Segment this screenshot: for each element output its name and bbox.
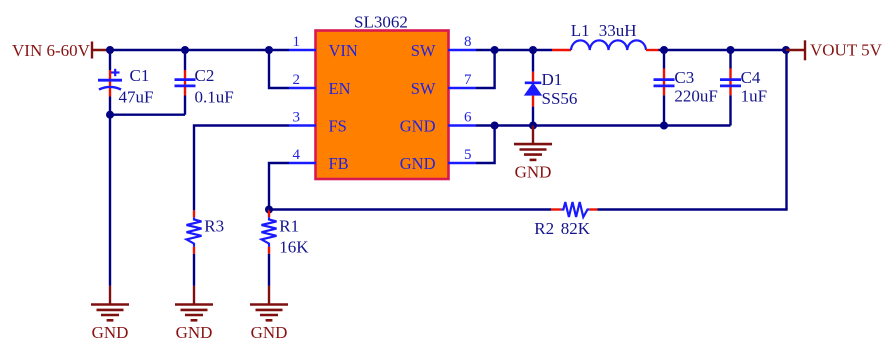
capacitor C4: [720, 50, 741, 126]
svg-text:VIN 6-60V: VIN 6-60V: [12, 41, 91, 60]
port VIN 6-60V: [91, 42, 93, 59]
pin 4 FB: [289, 162, 316, 165]
wire L1 to VOUT: [659, 49, 787, 51]
svg-text:GND: GND: [92, 323, 129, 342]
wire FB net: [269, 163, 289, 210]
wire C1-C2 bottom rail: [110, 113, 185, 115]
pin 8 SW: [448, 49, 476, 52]
wire SW node pin8 to L1: [476, 49, 552, 51]
svg-text:FB: FB: [329, 154, 349, 173]
wire FB rail to R2: [269, 208, 551, 210]
wire C1 down to GND: [109, 115, 111, 286]
node C2 top junction: [181, 46, 189, 54]
svg-text:C1: C1: [130, 66, 150, 85]
svg-text:SW: SW: [411, 41, 436, 60]
svg-text:GND: GND: [515, 162, 552, 181]
pin 7 SW: [448, 87, 476, 90]
svg-text:R1: R1: [279, 217, 299, 236]
wire pin7 up to pin8: [476, 50, 495, 88]
svg-text:C4: C4: [741, 68, 761, 87]
node D1 top junction: [529, 46, 537, 54]
wire VIN top rail: [110, 49, 289, 51]
node pin6 junction: [491, 122, 499, 130]
svg-text:5: 5: [464, 147, 472, 163]
svg-text:4: 4: [293, 147, 301, 163]
svg-text:C3: C3: [674, 68, 694, 87]
wire R3 to GND: [193, 254, 195, 286]
svg-text:8: 8: [464, 34, 472, 50]
op-amp U1 SL3062 body: [316, 31, 449, 180]
node C1 top junction: [106, 46, 114, 54]
svg-text:16K: 16K: [279, 237, 309, 256]
ground GND under R1: [250, 286, 288, 342]
svg-text:SW: SW: [411, 79, 436, 98]
svg-text:GND: GND: [400, 117, 436, 136]
node D1 bottom junction: [529, 122, 537, 130]
svg-text:82K: 82K: [561, 219, 591, 238]
svg-text:1: 1: [293, 34, 301, 50]
wire GND rail: [476, 124, 731, 126]
svg-text:3: 3: [293, 110, 301, 126]
svg-text:D1: D1: [542, 70, 563, 89]
svg-text:GND: GND: [176, 323, 213, 342]
svg-text:L1: L1: [571, 21, 590, 40]
ground GND under C1: [91, 286, 129, 342]
svg-text:SL3062: SL3062: [354, 12, 408, 31]
node C3 bottom junction: [660, 122, 668, 130]
svg-text:SS56: SS56: [542, 89, 578, 108]
svg-text:0.1uF: 0.1uF: [195, 87, 234, 106]
svg-text:VOUT 5V: VOUT 5V: [810, 41, 883, 60]
svg-text:GND: GND: [400, 154, 436, 173]
svg-text:220uF: 220uF: [674, 87, 717, 106]
inductor L1: [552, 40, 659, 50]
svg-text:2: 2: [293, 72, 301, 88]
node FB/R1/R2 junction: [265, 206, 273, 214]
resistor R1: [262, 210, 277, 254]
svg-text:47uF: 47uF: [119, 87, 154, 106]
wire EN net: [269, 50, 289, 88]
port VOUT 5V: [786, 49, 805, 51]
pin 3 FS: [289, 124, 316, 127]
wire pin5 up to pin6: [476, 126, 495, 164]
node pin8 junction: [491, 46, 499, 54]
svg-text:7: 7: [464, 72, 472, 88]
capacitor C2: [175, 50, 196, 115]
capacitor C3: [654, 50, 675, 126]
svg-text:FS: FS: [329, 117, 347, 136]
svg-text:R3: R3: [204, 217, 224, 236]
wire R1 to GND: [268, 254, 270, 286]
node C3 top junction: [660, 46, 668, 54]
ground GND under D1: [514, 126, 552, 182]
svg-text:EN: EN: [329, 79, 351, 98]
node C1 bottom junction: [106, 111, 114, 119]
resistor R2: [551, 202, 598, 217]
svg-text:VIN: VIN: [329, 41, 358, 60]
svg-text:33uH: 33uH: [599, 21, 637, 40]
svg-text:GND: GND: [251, 323, 288, 342]
wire FS net: [194, 126, 289, 211]
capacitor C1: [98, 50, 122, 115]
node VOUT junction: [782, 46, 790, 54]
node pin1/EN junction: [265, 46, 273, 54]
pin 2 EN: [289, 87, 316, 90]
svg-text:R2: R2: [534, 219, 554, 238]
pin 1 VIN: [289, 49, 316, 52]
wire R2 to VOUT rail: [598, 50, 787, 210]
node C4 top junction: [727, 46, 735, 54]
svg-text:C2: C2: [195, 66, 215, 85]
pin 6 GND: [448, 124, 476, 127]
pin 5 GND: [448, 162, 476, 165]
svg-text:1uF: 1uF: [741, 87, 767, 106]
svg-text:6: 6: [464, 110, 472, 126]
ground GND under R3: [175, 286, 213, 342]
resistor R3: [187, 210, 202, 253]
diode D1: [524, 50, 542, 126]
